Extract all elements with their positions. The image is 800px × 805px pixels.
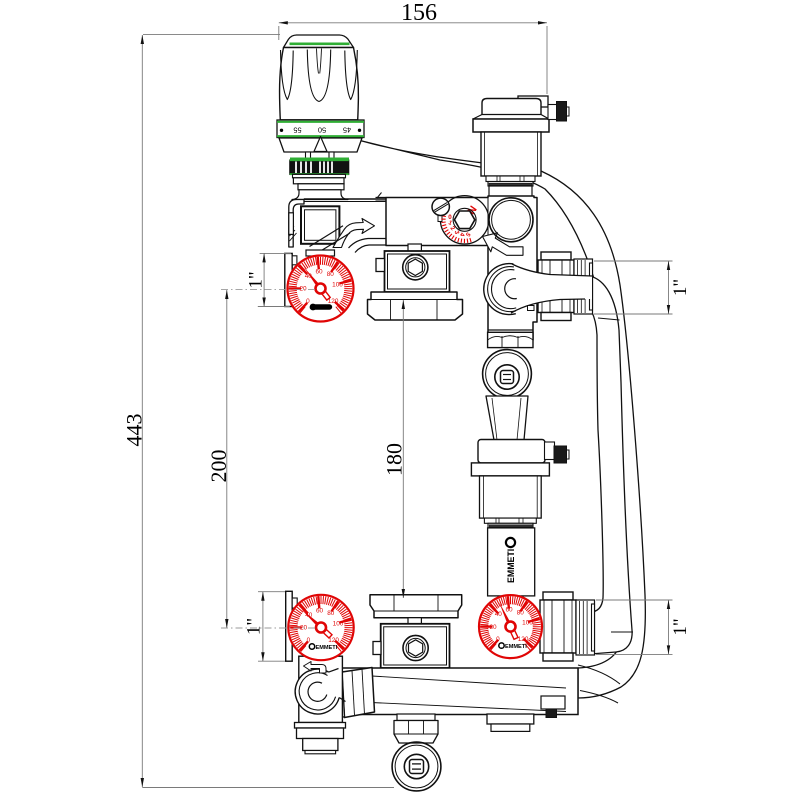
svg-text:EMMETI: EMMETI [506,549,516,583]
dial hex nut [453,208,476,231]
lower check valve with hex plug (middle column bottom) [381,624,450,668]
upper right U-bend pipe over union nut [511,264,592,313]
flow direction arrow (up-left) cast on valve body [483,233,524,256]
valve adapter rings [293,174,346,177]
dimension 443 vertical at left [143,34,280,36]
air separator bottom rings [486,176,535,182]
bottom center thermometer gauge (red) [479,595,542,658]
diagonal pipe from servo to gauge [310,226,344,247]
EMMETI logo on pipe [506,538,515,547]
svg-text:20: 20 [489,624,497,631]
check valve with hex plug (middle column top) [385,251,450,292]
svg-text:20: 20 [299,286,307,293]
manifold left tilted union nut [342,668,375,718]
lower right union nut (ribbed) [543,592,573,600]
svg-text:0: 0 [307,637,311,644]
black ribbed locking ring [290,160,349,174]
centerline lower left port [221,627,316,629]
left bottom port flange [295,723,346,729]
valve neck [292,190,348,200]
svg-text:100: 100 [522,620,533,627]
svg-text:80: 80 [327,271,335,278]
vertical pipe with EMMETI logo [488,528,535,596]
upper middle union nut [368,292,463,320]
lower middle union nut [370,595,462,618]
mixing valve red setting dial with hex nut [440,196,488,244]
right stub below manifold [487,714,534,724]
U-bend inner arc [505,279,517,299]
upper left 1 inch port stub flange [285,253,292,306]
U-bend outer fitting arcs [484,264,516,315]
lower right tailpiece rings [576,600,595,655]
balancing screw with slot on top of dial [432,198,449,215]
dimension 1 inch upper right [594,260,673,262]
small flow arrow (left) on elbow [304,662,327,674]
svg-text:1": 1" [244,618,265,635]
svg-text:50: 50 [318,126,326,135]
air separator cap (top right column) [518,96,548,107]
temperature scale band [277,120,364,138]
svg-text:60: 60 [315,268,323,275]
upper left thermometer gauge (red) [288,256,354,322]
U-bend pipe top edge [512,264,592,276]
svg-text:80: 80 [517,609,525,616]
svg-text:120: 120 [518,636,529,643]
bottom drain hex adapter [397,714,435,721]
lower check valve left stub [373,642,381,655]
inner bypass pipe (C-shape) from upper right outlet to lower right outlet [557,275,632,655]
outer bypass pipe from thermostatic valve sweeping down right side [362,141,645,698]
left elbow loop pipe (U-loop) [295,669,340,714]
svg-text:200: 200 [206,450,231,483]
svg-text:60: 60 [316,607,324,614]
thermostatic head body with grip flutes [280,48,359,120]
svg-text:45: 45 [343,126,351,135]
grip flute left [281,50,294,100]
small drain cock at manifold right end [541,696,565,709]
right column lower: hex nut under valve body [488,332,533,347]
air vent bottom rings [484,518,536,523]
dimension 1 inch lower left [258,591,285,593]
dimension 1 inch lower right [596,599,673,601]
svg-text:80: 80 [327,610,335,617]
dimension 1 inch upper left [260,252,291,254]
lower check valve neck [408,618,421,624]
U-bend pipe bottom edge [511,299,585,313]
gauge stem block upper left [306,250,335,256]
dimension 180 vertical (union spacing) [402,300,404,598]
lower left thermometer gauge (red) [288,595,353,660]
chamfer tick on valve body [377,193,382,199]
air separator side vent valve with black knob [548,105,557,120]
svg-text:60: 60 [505,606,513,613]
grip flute center [307,50,330,102]
pipe junction line on inner bypass pipe [611,631,633,633]
left elbow body below gauge [299,656,343,722]
air vent cylinder [480,476,542,518]
ball valve with slotted plug (right column) [483,350,532,399]
bottom drain valve with slotted plug [392,742,441,791]
svg-text:EMMETI: EMMETI [316,645,338,651]
dimension 200 vertical (port spacing left) [226,290,228,628]
curved pipe from valve to middle column [349,239,387,249]
svg-text:100: 100 [332,282,343,289]
adapter tabs [306,152,311,160]
bottom manifold horizontal pipe [340,668,578,715]
svg-text:EMMETI: EMMETI [505,644,527,650]
mixing valve body block [386,196,537,340]
svg-text:120: 120 [328,298,339,305]
svg-text:0: 0 [306,298,310,305]
air separator flange [473,115,549,120]
pipe junction line upper on inner bypass pipe [598,318,620,320]
dimension 156 horizontal at top [278,26,280,40]
valve body left elbow outline [289,200,304,248]
pump connection flange circle on valve body [489,198,533,242]
svg-text:443: 443 [122,414,147,447]
bypass corner arcs at manifold right end [578,665,620,684]
svg-text:0: 0 [496,636,500,643]
lower left 1 inch port stub flange [286,591,293,661]
left bottom port cap [303,739,338,751]
hatch marks on elbow corner [290,233,297,241]
green ring under dome [290,42,350,45]
air vent body top flange with side knob (lower right column) [478,440,545,463]
air separator body [481,132,541,176]
check valve neck [408,244,421,252]
air separator outlet pipe [489,186,532,198]
centerline upper left port [221,289,316,291]
svg-text:100: 100 [333,621,344,628]
upper right union nut (ribbed) [541,252,571,260]
svg-text:40: 40 [495,611,503,618]
tab left of servo square [289,213,294,235]
svg-text:55: 55 [293,126,301,135]
thermostatic valve body top plate [304,198,386,200]
indicator ring with pointer triangle [279,138,362,152]
valve cone body narrowing to air vent [486,396,528,440]
thermostatic head dome [284,35,354,48]
svg-text:1": 1" [246,271,267,288]
svg-text:156: 156 [401,0,437,26]
air vent band [471,463,549,476]
check valve left stub [376,259,385,272]
svg-text:1": 1" [670,279,691,296]
small tick near union [528,306,535,311]
grip flute right [345,50,358,100]
upper right tailpiece rings [574,259,593,314]
flow direction arrow (right) cast on valve [333,219,375,248]
svg-text:1": 1" [670,618,691,635]
lower left port pipe bits [292,598,297,608]
svg-text:180: 180 [382,443,407,476]
servo square on valve [301,206,339,244]
